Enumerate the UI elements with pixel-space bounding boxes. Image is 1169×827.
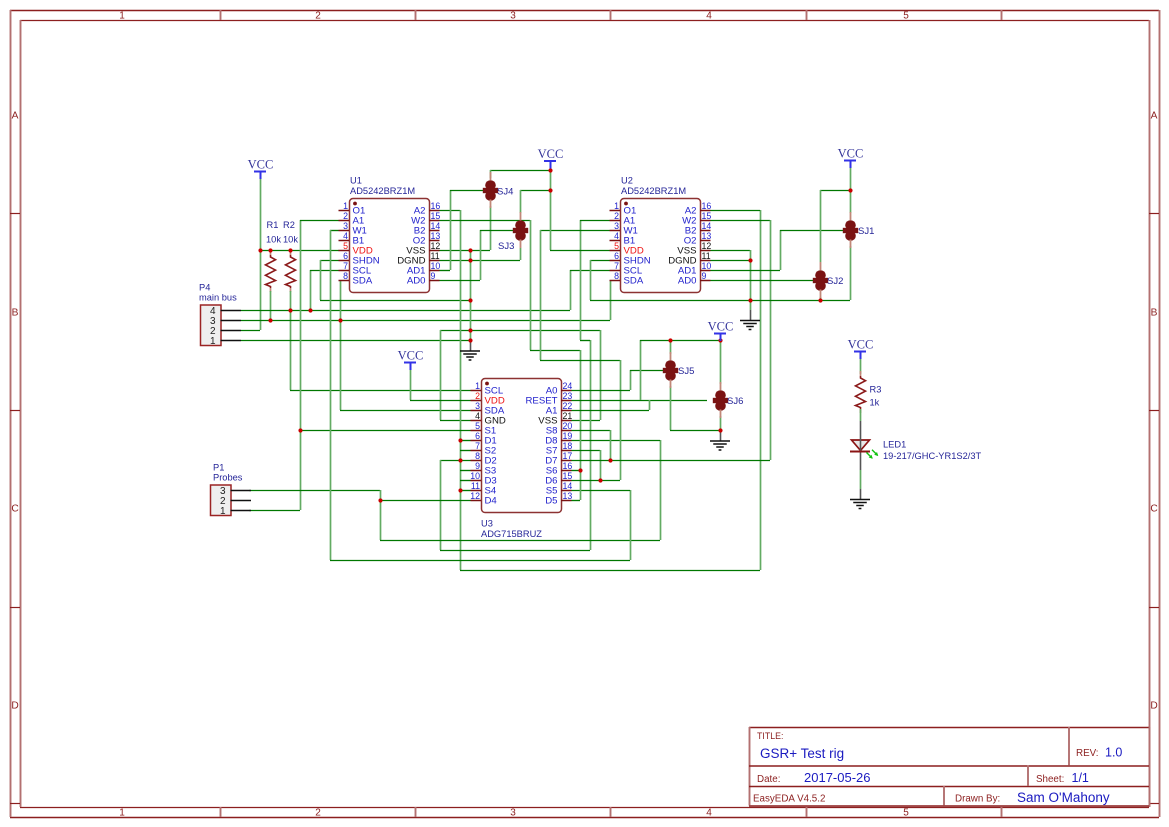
svg-text:2: 2 — [475, 391, 480, 401]
svg-text:9: 9 — [475, 461, 480, 471]
svg-text:11: 11 — [471, 481, 480, 491]
svg-text:SJ5: SJ5 — [678, 366, 694, 377]
svg-text:B: B — [12, 308, 19, 319]
svg-text:16: 16 — [563, 461, 573, 471]
svg-text:8: 8 — [343, 271, 348, 281]
svg-text:1: 1 — [210, 336, 216, 347]
svg-text:VCC: VCC — [248, 158, 274, 172]
svg-text:24: 24 — [563, 381, 573, 391]
svg-text:10k: 10k — [266, 235, 281, 245]
svg-text:ADG715BRUZ: ADG715BRUZ — [481, 529, 542, 539]
svg-text:1k: 1k — [870, 398, 880, 408]
svg-text:VCC: VCC — [838, 147, 864, 161]
svg-text:3: 3 — [614, 221, 619, 231]
svg-text:12: 12 — [470, 491, 480, 501]
svg-text:6: 6 — [475, 431, 480, 441]
svg-text:SDA: SDA — [353, 275, 373, 286]
svg-text:LED1: LED1 — [883, 440, 906, 450]
svg-text:14: 14 — [702, 221, 712, 231]
svg-text:3: 3 — [475, 401, 480, 411]
svg-text:4: 4 — [614, 231, 619, 241]
svg-text:AD0: AD0 — [407, 275, 426, 286]
svg-text:7: 7 — [614, 261, 619, 271]
svg-text:AD5242BRZ1M: AD5242BRZ1M — [350, 186, 415, 196]
svg-text:6: 6 — [343, 251, 348, 261]
svg-text:16: 16 — [431, 201, 441, 211]
svg-text:6: 6 — [614, 251, 619, 261]
svg-text:D4: D4 — [485, 495, 498, 506]
svg-text:VCC: VCC — [848, 338, 874, 352]
svg-text:2: 2 — [343, 211, 348, 221]
svg-text:9: 9 — [702, 271, 707, 281]
svg-text:2017-05-26: 2017-05-26 — [804, 770, 871, 785]
svg-text:AD5242BRZ1M: AD5242BRZ1M — [621, 186, 686, 196]
svg-text:9: 9 — [431, 271, 436, 281]
svg-text:P1: P1 — [213, 463, 224, 473]
svg-text:11: 11 — [702, 251, 711, 261]
svg-text:3: 3 — [343, 221, 348, 231]
svg-text:7: 7 — [343, 261, 348, 271]
svg-text:Sheet:: Sheet: — [1036, 774, 1064, 785]
svg-text:7: 7 — [475, 441, 480, 451]
svg-text:1: 1 — [614, 201, 619, 211]
svg-text:5: 5 — [614, 241, 619, 251]
svg-text:TITLE:: TITLE: — [757, 731, 783, 741]
svg-text:13: 13 — [563, 491, 573, 501]
svg-text:5: 5 — [903, 807, 909, 818]
svg-text:13: 13 — [702, 231, 712, 241]
svg-text:1/1: 1/1 — [1072, 771, 1089, 785]
svg-text:A: A — [12, 111, 19, 122]
svg-text:11: 11 — [431, 251, 440, 261]
svg-text:SJ4: SJ4 — [497, 187, 513, 198]
svg-text:12: 12 — [702, 241, 712, 251]
svg-text:B: B — [1151, 308, 1158, 319]
svg-text:1: 1 — [475, 381, 480, 391]
svg-text:AD0: AD0 — [678, 275, 697, 286]
svg-text:5: 5 — [343, 241, 348, 251]
svg-text:8: 8 — [475, 451, 480, 461]
svg-text:12: 12 — [431, 241, 441, 251]
svg-text:3: 3 — [510, 10, 516, 21]
svg-text:1: 1 — [220, 506, 226, 517]
svg-text:15: 15 — [563, 471, 573, 481]
svg-text:4: 4 — [706, 10, 712, 21]
svg-text:C: C — [1150, 504, 1157, 515]
svg-text:14: 14 — [563, 481, 573, 491]
svg-text:2: 2 — [315, 10, 321, 21]
svg-text:R3: R3 — [870, 385, 882, 395]
svg-text:10k: 10k — [283, 235, 298, 245]
svg-text:U2: U2 — [621, 176, 633, 186]
svg-text:D5: D5 — [545, 495, 557, 506]
svg-text:1.0: 1.0 — [1105, 746, 1122, 760]
svg-text:15: 15 — [431, 211, 441, 221]
svg-text:U3: U3 — [481, 519, 493, 529]
svg-text:SJ3: SJ3 — [498, 241, 514, 252]
svg-text:16: 16 — [702, 201, 712, 211]
svg-text:A: A — [1151, 111, 1158, 122]
svg-text:REV:: REV: — [1076, 748, 1099, 759]
svg-text:SJ6: SJ6 — [727, 396, 743, 407]
svg-text:1: 1 — [119, 807, 125, 818]
svg-text:19-217/GHC-YR1S2/3T: 19-217/GHC-YR1S2/3T — [883, 451, 981, 461]
svg-text:5: 5 — [475, 421, 480, 431]
svg-text:C: C — [11, 504, 18, 515]
svg-text:4: 4 — [343, 231, 348, 241]
svg-text:17: 17 — [563, 451, 573, 461]
svg-text:8: 8 — [614, 271, 619, 281]
svg-text:1: 1 — [343, 201, 348, 211]
svg-text:U1: U1 — [350, 176, 362, 186]
svg-text:D: D — [11, 701, 18, 712]
svg-text:3: 3 — [510, 807, 516, 818]
svg-text:main bus: main bus — [199, 293, 237, 303]
svg-text:SJ1: SJ1 — [858, 226, 874, 237]
svg-text:SDA: SDA — [624, 275, 644, 286]
svg-text:2: 2 — [614, 211, 619, 221]
svg-text:15: 15 — [702, 211, 712, 221]
svg-text:Sam O'Mahony: Sam O'Mahony — [1017, 790, 1110, 805]
svg-text:VCC: VCC — [398, 349, 424, 363]
svg-text:14: 14 — [431, 221, 441, 231]
svg-text:13: 13 — [431, 231, 441, 241]
svg-text:10: 10 — [431, 261, 441, 271]
svg-text:4: 4 — [706, 807, 712, 818]
svg-text:D: D — [1150, 701, 1157, 712]
svg-text:P4: P4 — [199, 283, 210, 293]
svg-text:22: 22 — [563, 401, 573, 411]
svg-text:21: 21 — [563, 411, 573, 421]
svg-text:EasyEDA V4.5.2: EasyEDA V4.5.2 — [753, 794, 825, 805]
svg-text:18: 18 — [563, 441, 573, 451]
svg-text:10: 10 — [470, 471, 480, 481]
svg-text:GSR+ Test rig: GSR+ Test rig — [760, 746, 844, 761]
svg-text:20: 20 — [563, 421, 573, 431]
svg-text:Date:: Date: — [757, 774, 780, 785]
svg-text:5: 5 — [903, 10, 909, 21]
svg-text:VCC: VCC — [538, 147, 564, 161]
svg-text:R2: R2 — [283, 220, 295, 230]
svg-text:VCC: VCC — [708, 320, 734, 334]
svg-text:1: 1 — [119, 10, 125, 21]
svg-text:Probes: Probes — [213, 473, 243, 483]
svg-text:R1: R1 — [267, 220, 279, 230]
svg-text:23: 23 — [563, 391, 573, 401]
svg-text:10: 10 — [702, 261, 712, 271]
svg-text:Drawn By:: Drawn By: — [955, 794, 1000, 805]
svg-text:19: 19 — [563, 431, 573, 441]
svg-text:SJ2: SJ2 — [827, 276, 843, 287]
svg-text:2: 2 — [315, 807, 321, 818]
svg-text:4: 4 — [475, 411, 480, 421]
